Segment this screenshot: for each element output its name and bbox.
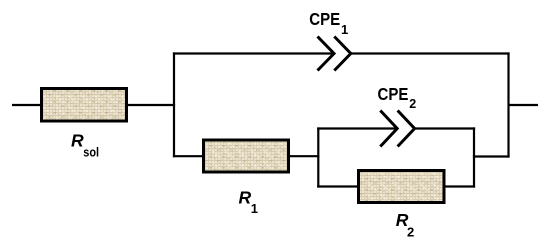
svg-text:2: 2 [409,97,416,111]
svg-text:CPE: CPE [309,9,340,29]
label R_sol [71,130,99,159]
CPE2 chevrons [380,111,414,147]
svg-text:1: 1 [251,201,258,216]
wire: inner left vertical (node B) [317,127,319,187]
wire: inner right vertical [473,127,475,187]
wire: right output stub [509,104,539,106]
wire: right vertical of outer parallel (node C) [507,52,509,157]
wire: R2 to inner right vertical [443,185,475,187]
resistor R2 [359,171,445,203]
svg-text:1: 1 [341,22,348,37]
wire: left vertical of outer parallel (node A) [173,52,175,157]
wire: top rail left segment [173,52,334,54]
wire: inner parallel to node C connector [473,155,510,157]
svg-text:R: R [239,187,252,207]
label R2 [396,210,414,239]
resistor R_sol [42,89,127,122]
wire: R_sol to node A [126,104,175,106]
wire: node A to R1 (bottom branch left) [173,155,204,157]
CPE1 chevrons [318,37,351,71]
wire: inner top branch right segment [415,127,476,129]
svg-text:sol: sol [83,145,99,160]
wire: node B to R2 (inner bottom left) [317,185,360,187]
svg-text:2: 2 [407,224,414,239]
label CPE1 [309,9,348,37]
wire: left input stub [12,104,42,106]
wire: top rail right segment [351,52,510,54]
svg-text:R: R [71,130,84,150]
label CPE2 [378,84,417,111]
wire: inner top branch left segment [317,127,397,129]
resistor R1 [204,140,289,172]
wire: R1 to node B [288,155,319,157]
svg-text:CPE: CPE [378,84,409,104]
label R1 [239,187,259,216]
